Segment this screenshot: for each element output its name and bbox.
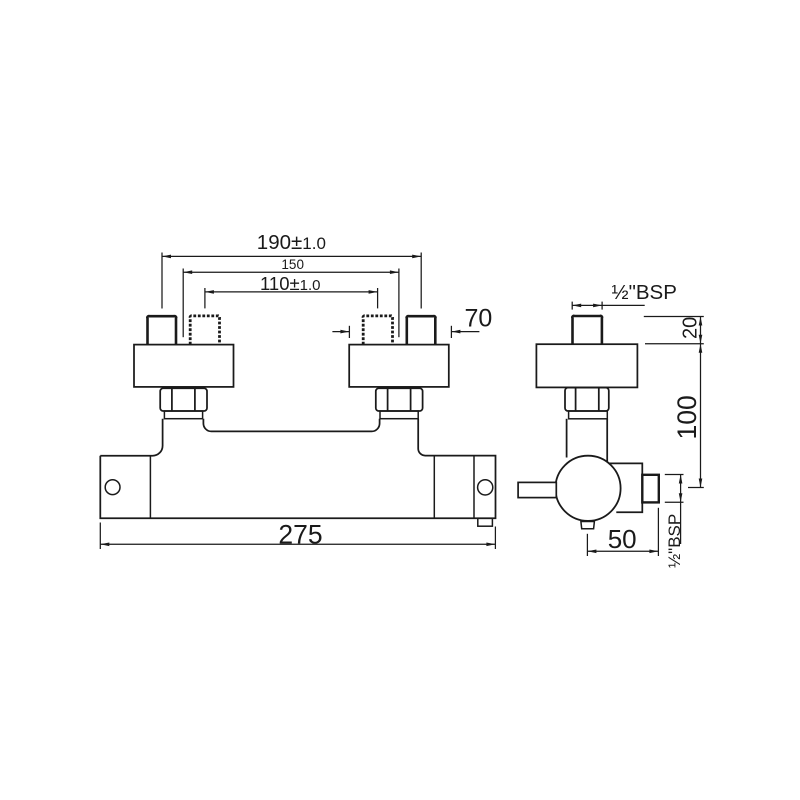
svg-text:20: 20 xyxy=(680,317,702,339)
svg-text:½"BSP: ½"BSP xyxy=(612,281,677,304)
svg-text:50: 50 xyxy=(608,524,637,554)
svg-text:½"BSP: ½"BSP xyxy=(665,514,684,568)
svg-text:100: 100 xyxy=(672,395,702,439)
svg-text:275: 275 xyxy=(278,519,322,549)
svg-text:150: 150 xyxy=(281,257,304,272)
svg-text:110±1.0: 110±1.0 xyxy=(260,273,321,294)
svg-text:70: 70 xyxy=(465,304,493,332)
svg-text:190±1.0: 190±1.0 xyxy=(257,231,326,254)
